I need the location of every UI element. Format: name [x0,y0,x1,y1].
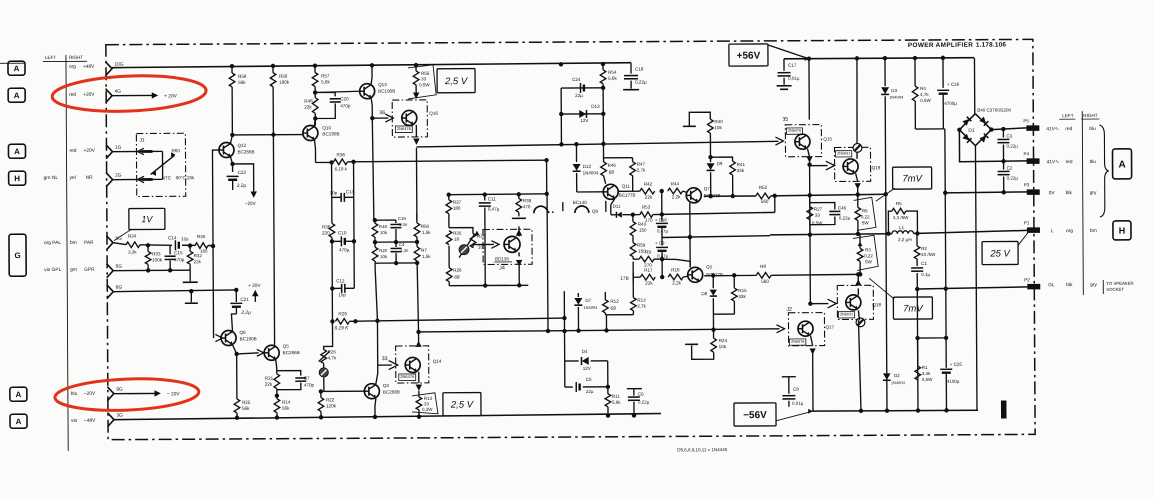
svg-text:D3: D3 [891,88,897,93]
wire x562 column [560,88,562,114]
svg-text:−56V: −56V [743,410,767,421]
svg-text:2,2k: 2,2k [672,280,681,285]
svg-text:470p: 470p [174,257,185,262]
svg-text:0,1µ: 0,1µ [921,272,930,277]
resistor R37 180 [448,195,450,200]
callout box +56V [729,44,768,66]
svg-text:1N4004: 1N4004 [583,305,598,310]
svg-text:H: H [1119,226,1126,236]
svg-text:R13: R13 [637,298,646,303]
svg-text:22k: 22k [265,382,273,387]
sensor box J1 dashed [136,133,185,196]
svg-text:2,2 µH: 2,2 µH [898,237,912,242]
svg-text:10 /5W: 10 /5W [921,252,936,257]
callout -56V pointer [776,412,811,421]
wire Q6 to Q5 base [237,353,259,354]
svg-text:10k: 10k [719,344,727,349]
callout box 7mV bottom [893,297,932,319]
wire Q12 emitter up [230,135,232,144]
svg-text:2,7k: 2,7k [637,168,646,173]
svg-text:RIGHT: RIGHT [69,55,84,60]
pad P4 [1027,158,1040,164]
svg-text:J2: J2 [786,307,792,313]
svg-text:SOCKET: SOCKET [1106,287,1124,292]
wire bridge left to P4 [959,129,1026,161]
wire x810 column mid [809,165,812,304]
svg-text:BC266B: BC266B [283,350,300,355]
svg-text:R2: R2 [921,246,927,251]
svg-text:brn: brn [70,240,77,246]
transistor Q5 BC266B [264,345,279,360]
svg-text:C46: C46 [838,205,847,210]
right legend divider [1082,111,1083,295]
svg-text:1V: 1V [141,214,153,224]
svg-text:Q19: Q19 [872,165,881,170]
svg-text:LEFT: LEFT [45,55,56,60]
svg-text:R58: R58 [238,74,247,79]
svg-text:grn: grn [70,267,77,273]
wire Q17 emitter down [811,336,813,346]
svg-text:C7: C7 [304,376,310,381]
wire x547 mid link [546,194,549,331]
svg-text:5,6k: 5,6k [612,400,621,405]
svg-text:3,3k: 3,3k [922,371,931,376]
svg-text:0,22µ: 0,22µ [635,80,647,85]
thermistor R60 NTC [161,151,163,179]
svg-text:R59: R59 [637,243,646,248]
svg-text:A: A [14,147,20,156]
svg-text:L: L [1051,228,1054,234]
svg-text:R33: R33 [152,251,161,256]
input chevron 8G [107,285,114,299]
svg-text:17B: 17B [620,276,629,282]
svg-text:180: 180 [453,206,461,211]
capacitor C19b 0.22u [624,75,638,77]
transistor Q12 BC266B [219,142,234,157]
arrow into Q17 base [776,325,784,333]
svg-text:0,22µ: 0,22µ [638,400,650,405]
svg-text:22k: 22k [194,259,202,264]
capacitor C22 2.2u [227,175,239,177]
svg-text:+56V: +56V [737,51,761,62]
wire Q14 emitter down arrow [418,372,420,383]
svg-text:A: A [1118,159,1125,170]
resistor R11 5.6k [605,394,611,407]
svg-text:vio: vio [71,418,77,424]
transistor Q11 BC177B [603,184,618,199]
svg-text:P3: P3 [1024,182,1030,187]
svg-text:R55: R55 [421,71,430,76]
svg-text:41V∿: 41V∿ [1047,159,1060,165]
svg-text:0,01µ: 0,01µ [792,401,804,406]
svg-text:C2: C2 [1007,165,1013,170]
svg-text:90°C:25k: 90°C:25k [176,175,195,180]
svg-text:R26: R26 [453,268,462,273]
svg-text:+ 20V: + 20V [248,283,261,288]
svg-text:8G: 8G [116,285,123,291]
input chevron 4G [106,89,113,103]
svg-text:6,19 K: 6,19 K [334,325,349,331]
svg-text:120k: 120k [326,403,337,408]
svg-text:R6: R6 [862,208,868,213]
wire Q5 emitter down [276,360,277,374]
svg-text:12V: 12V [583,366,592,371]
svg-text:R13: R13 [424,396,433,401]
svg-text:BC190B: BC190B [378,89,395,94]
svg-text:4,7k: 4,7k [920,92,929,97]
resistor R8 560 [704,274,756,276]
svg-text:C22: C22 [238,170,247,175]
svg-text:−20V: −20V [245,201,257,206]
svg-text:TO SPEAKER: TO SPEAKER [1106,281,1133,286]
wire 2G into J1 [113,178,152,180]
wire Q6 emitter up [231,314,236,332]
connector box A right [1112,149,1131,179]
wire Q12 collector and -20V branch [231,157,233,172]
connector box G rows5-6 [9,234,26,276]
transistor Q9 BC140 case arcs [534,206,548,213]
svg-text:Q5: Q5 [283,344,290,349]
hook ground R40 [683,125,696,127]
connector box A row1 [8,61,25,75]
svg-text:C8: C8 [793,387,799,392]
svg-text:blu: blu [71,391,78,397]
svg-text:0,3W: 0,3W [422,407,433,412]
svg-text:10p: 10p [338,292,346,297]
svg-text:blu: blu [1089,126,1096,132]
svg-text:R50: R50 [421,224,430,229]
svg-text:5W: 5W [862,220,870,225]
wire Q18 collector down [858,310,859,320]
heatsink box Q17 dashed [788,313,824,346]
resistor R46 68 [603,158,605,162]
node R42 R44 [660,189,664,193]
brace for connector A [1099,125,1109,217]
callout box -56V [734,403,776,426]
wire R52 to Q19 emitter rail [771,194,886,196]
diode D8 [712,276,714,289]
svg-text:56k: 56k [282,406,290,411]
svg-text:H: H [14,174,20,183]
capacitor C3 0.22u [1002,129,1004,137]
svg-text:R25: R25 [242,400,251,405]
wire column x=417 down to y331 [417,263,418,332]
capacitor C2 0.22u [1003,161,1005,169]
svg-text:R24: R24 [719,338,728,343]
svg-text:2N5631: 2N5631 [837,151,850,155]
svg-text:R30: R30 [197,234,206,239]
wire Q16 emitter down arrow [415,125,417,137]
wire column x=417 upper [415,148,417,220]
svg-text:red: red [1065,126,1072,132]
svg-text:+ C9: + C9 [655,240,665,245]
wire R4 C26 bottoms [915,128,944,130]
svg-text:R40: R40 [714,119,723,124]
svg-text:Q14: Q14 [433,359,442,364]
wire R3 bottom to y276 [858,272,862,276]
connector box A row3 [8,144,25,158]
transistor Q1 BC177B [688,267,703,282]
inductor L1 [892,231,914,234]
svg-text:22k: 22k [304,105,312,110]
wire Q3 emitter down [375,398,376,417]
callout 7mV bottom pointer [869,278,894,299]
resistor R36 220 [331,197,333,223]
svg-text:33: 33 [421,76,427,81]
svg-text:BC266B: BC266B [237,149,254,154]
svg-text:R22: R22 [326,397,335,402]
svg-text:RIGHT: RIGHT [1083,113,1098,118]
resistor R39 470 [518,194,520,198]
svg-text:6,19 k: 6,19 k [335,166,348,171]
arrow down from bias transistor [518,252,520,256]
svg-text:10k: 10k [380,254,388,259]
resistor R21 22k [274,374,280,389]
svg-text:R36: R36 [322,224,331,229]
capacitor C19 1.3n [395,220,397,223]
resistor R50 1.5k [416,213,418,223]
resistor R16 2.2k [668,274,683,280]
svg-text:Q9: Q9 [592,209,599,214]
resistor R14 56k [274,399,280,413]
svg-text:1,3n: 1,3n [400,248,409,253]
svg-text:100k: 100k [152,257,163,262]
svg-text:3,3 /5W: 3,3 /5W [893,215,909,220]
resistor R47 2.7k [632,158,634,162]
svg-text:0V: 0V [1049,190,1056,196]
wire Q10 emitter to R38 [314,139,315,162]
wire GL line to P2 [917,287,1027,289]
resistor R56 190k [272,66,274,73]
wire Q11 collector down [611,199,615,205]
svg-text:C10: C10 [338,230,347,235]
input chevron 3G [107,413,114,427]
pad P2 [1027,284,1040,290]
transistor Q14 2N6476 [405,357,420,372]
wire Q19 emitter down [856,173,858,181]
wire R46 R47 tops [603,144,632,158]
svg-text:0,47µ: 0,47µ [657,228,669,233]
capacitor C21 2.2u [235,290,237,302]
svg-text:R38: R38 [336,152,345,157]
svg-text:2N6476: 2N6476 [791,340,804,344]
svg-text:470p: 470p [304,383,315,388]
resistor R13b 2.7k [632,262,634,298]
wire x886 column [884,58,886,86]
svg-text:33: 33 [382,356,388,362]
svg-text:Q6: Q6 [240,330,247,335]
svg-text:+ 20V: + 20V [164,93,178,99]
svg-text:R29: R29 [338,311,347,316]
resistor R58 56k [231,66,233,73]
input chevron 10G [105,62,112,76]
svg-text:R17: R17 [644,268,653,273]
svg-text:red: red [1066,159,1073,165]
connector box A row2 [8,88,25,102]
svg-text:Q3: Q3 [383,383,390,388]
transistor Q15 [795,134,810,149]
wire Q15 to Q19 base [810,165,828,167]
wire -56V bottom rail [812,409,978,412]
svg-text:2,7k: 2,7k [637,304,646,309]
svg-text:grn NL: grn NL [44,175,59,181]
node 5G-R32 [188,243,192,247]
svg-text:D1: D1 [968,128,974,134]
svg-text:0,22: 0,22 [861,214,870,219]
svg-text:blu: blu [1090,159,1097,165]
transistor Q7 BC107B [686,188,701,203]
svg-text:0,01µ: 0,01µ [788,76,800,81]
wire bridge right to P5 [991,128,1026,130]
connector box H right [1113,221,1131,240]
resistor R24 10k [713,330,715,338]
transistor Q17 [798,321,813,336]
svg-text:D4: D4 [582,349,588,354]
wire -48V bus [114,414,661,420]
transistor Q3 BC266B [364,384,379,399]
svg-text:C24: C24 [572,77,581,82]
node 5G-R33 [146,243,150,247]
svg-text:22µ: 22µ [586,389,594,394]
wire x662 column [661,259,663,277]
red highlight ellipse bottom [54,376,199,413]
svg-text:gry: gry [1090,282,1097,288]
svg-text:Q15: Q15 [823,137,832,142]
resistor R53 170 [622,214,639,216]
resistor R57 5.6k [314,66,316,73]
wire column x=373 [371,65,373,77]
resistor R59 150 [630,243,636,257]
wire R12 R13 bottoms [604,313,606,315]
resistor R26b 68 [448,246,450,268]
svg-text:Q10: Q10 [322,125,331,130]
resistor R7 1.5k [416,237,418,247]
hook ground R24 [692,345,714,359]
resistor R5 3.3/5W [888,211,892,234]
svg-text:0,22µ: 0,22µ [1007,175,1019,180]
capacitor C11 0.47u [484,195,486,201]
svg-text:7mV: 7mV [902,173,923,184]
capacitor C7 470p [277,371,301,376]
svg-text:12V: 12V [580,118,589,123]
svg-text:1N4004: 1N4004 [889,95,904,100]
wire bias transistor base [472,245,474,248]
svg-text:D8: D8 [701,291,707,296]
capacitor C6 0.22u [627,388,642,390]
trimmer arrow [459,234,475,258]
transistor Q13 BC190B [360,84,375,99]
svg-text:BC190B: BC190B [240,336,257,341]
svg-text:1N4004: 1N4004 [891,380,906,385]
capacitor C12 10p [330,286,334,290]
svg-text:org PAL: org PAL [44,240,61,246]
svg-text:C3: C3 [1006,133,1012,138]
svg-text:gry: gry [1090,190,1097,196]
wire 6G line [113,269,190,271]
to speaker socket note [1102,280,1104,294]
svg-text:3,3k: 3,3k [128,250,137,255]
input chevron 1G [106,145,113,159]
svg-text:Q11: Q11 [622,184,631,189]
svg-text:2G: 2G [115,173,122,179]
resistor R41 33k [730,161,736,175]
wire Q15 emitter down [807,149,809,157]
svg-text:D2: D2 [894,373,900,378]
wire Q5 collector up [274,344,276,347]
wire D7 column [577,293,579,297]
svg-text:LEFT: LEFT [1062,113,1073,118]
heatsink box Q14 dashed [396,346,429,383]
svg-text:56k: 56k [238,80,246,85]
svg-text:10k: 10k [714,125,722,130]
capacitor C46 0.22u [810,203,835,210]
resistor R32 22k [189,245,191,251]
svg-text:1N4004: 1N4004 [583,170,599,175]
svg-text:R42: R42 [644,182,653,187]
wire Q1 emitter [699,259,701,262]
wire x607 column [607,361,609,394]
svg-text:Q12: Q12 [237,143,246,148]
svg-text:+ C26: + C26 [947,82,960,87]
resistor R48 22k [312,97,318,113]
svg-text:C20: C20 [340,96,349,101]
svg-text:BC177B: BC177B [619,193,636,198]
input chevron 2G [106,173,113,187]
svg-text:R56: R56 [279,74,288,79]
svg-text:0,22µ: 0,22µ [1006,143,1018,148]
svg-text:R41: R41 [737,162,746,167]
svg-text:+48V: +48V [83,64,95,70]
svg-text:+20V: +20V [83,148,95,154]
resistor R6 0.22 5W flag [854,197,876,230]
svg-text:−48V: −48V [84,418,96,424]
svg-text:470: 470 [523,204,531,209]
resistor R17 22k [640,274,655,280]
heatsink box Q18 dashed [837,285,873,319]
svg-text:C14: C14 [168,235,177,240]
svg-text:33: 33 [815,213,821,218]
svg-text:22k: 22k [645,195,653,200]
heatsink box Q19 dashed [834,147,870,181]
svg-text:5,6k: 5,6k [608,76,617,81]
input chevron 6G [107,264,114,278]
svg-text:red: red [69,92,76,98]
svg-text:33: 33 [424,401,430,406]
capacitor C14 12u [174,240,176,250]
resistor R34 3.3k [126,242,140,248]
heatsink dash box BD138 [483,229,532,264]
transistor Q19 [843,159,858,174]
connector box A row8 [10,414,27,428]
wire +56V top rail [784,58,974,59]
svg-text:R39: R39 [523,198,532,203]
diode D12 1N4004 [575,144,577,162]
legend divider vertical [66,55,68,451]
capacitor C1 0.1u [916,259,918,266]
resistor R9 270 [639,256,654,262]
svg-text:BD138: BD138 [495,256,509,261]
wire Q3 base [321,390,364,392]
wire joins of RC ladder [375,219,396,221]
svg-text:18: 18 [454,237,460,242]
trimmer R26 4.7k [323,321,332,349]
svg-text:D7: D7 [585,298,591,303]
callout 1V pointer [114,230,131,241]
svg-text:R32: R32 [194,253,203,258]
svg-text:C17: C17 [788,63,797,68]
svg-text:560: 560 [761,279,769,284]
transistor Q6 BC190B [221,330,236,345]
